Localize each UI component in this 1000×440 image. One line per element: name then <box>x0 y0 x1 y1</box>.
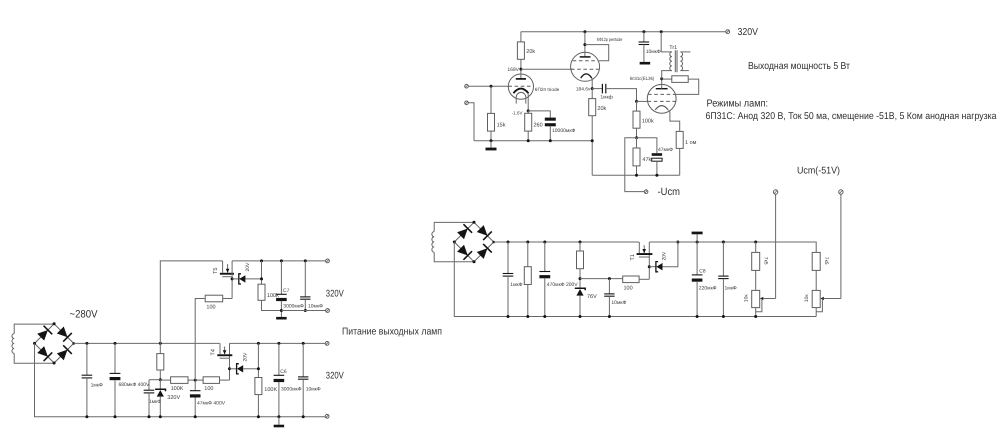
label 76V <box>587 294 597 300</box>
label C8 <box>699 269 706 275</box>
svg-text:320V: 320V <box>167 395 180 401</box>
resistor 100 T1gate <box>623 276 639 283</box>
label 1uF-a <box>91 383 103 389</box>
svg-text:-Ucm: -Ucm <box>658 186 681 198</box>
wire Tr1 secondary top <box>680 51 690 53</box>
label zener 320V <box>167 395 180 401</box>
wire bias bottom rail <box>508 316 816 318</box>
label C8 value <box>699 285 717 291</box>
svg-text:20V: 20V <box>245 262 251 272</box>
resistor bias series <box>577 251 584 269</box>
wire 10uF-d bottom <box>304 299 306 310</box>
node V2 anode-screen tie <box>583 43 586 46</box>
tube V2 cathode <box>581 74 592 78</box>
wire input 1 to grid <box>468 85 508 87</box>
label 10uF-d <box>308 303 323 309</box>
resistor 20k load <box>589 99 596 116</box>
label output power <box>748 61 850 72</box>
wire 15k top <box>490 86 492 113</box>
node grid junction <box>490 85 493 88</box>
node bias-C8 <box>696 241 699 244</box>
svg-text:10мкФ: 10мкФ <box>611 300 626 306</box>
svg-text:320V: 320V <box>326 289 344 300</box>
wire grid V3 <box>637 100 648 102</box>
wire 7k5a bottom <box>755 270 757 290</box>
wire V2 cathode lead <box>591 78 593 89</box>
transformer PSU2 winding <box>432 232 434 253</box>
capacitor C7 3000uF <box>276 294 287 301</box>
svg-text:Т4: Т4 <box>211 349 217 355</box>
label 100k T5 <box>267 293 279 299</box>
wire V2 screen tie <box>585 45 609 61</box>
wire 10uF bottom <box>643 45 645 62</box>
wire 47uF-psu1 top <box>194 380 196 391</box>
svg-text:47k: 47k <box>642 157 651 163</box>
wire 1uF-a bottom <box>86 378 88 417</box>
svg-text:6Ф12р pentode: 6Ф12р pentode <box>597 37 623 42</box>
node 10uF-c minus <box>302 415 305 418</box>
wire 100 T5 right <box>223 298 232 300</box>
node B1 top <box>53 322 56 325</box>
potentiometer 10k b <box>812 290 820 307</box>
wire T4 out rail <box>230 342 326 344</box>
wire bias res2 top <box>579 242 581 251</box>
resistor 100k grid <box>633 111 640 128</box>
wire zener76 bottom <box>579 296 581 317</box>
tube V2 anode <box>580 56 591 58</box>
wire bias res1 bottom <box>527 285 529 317</box>
wire bias res1 top <box>527 242 529 267</box>
node C8 minus <box>696 315 699 318</box>
wire T1 gate riser <box>648 242 650 279</box>
wire 100K vert T4 <box>257 343 259 377</box>
wire PSU1 winding top <box>14 324 54 334</box>
capacitor 10000uF <box>545 118 556 127</box>
wire C6 ground stub <box>278 417 280 425</box>
label V1 6P2p triode <box>535 87 560 92</box>
wire coupling to grid <box>606 89 637 102</box>
wire 320V rail <box>521 31 726 33</box>
node 10uF-e minus <box>608 315 611 318</box>
svg-text:~280V: ~280V <box>70 309 99 321</box>
wiper arrow b <box>820 297 841 300</box>
resistor 47k <box>633 148 640 166</box>
svg-text:-1.6V: -1.6V <box>512 110 523 115</box>
wire 10uF-d top <box>304 261 306 297</box>
tube V1 anode <box>516 78 526 80</box>
terminal Ucm a <box>773 190 777 194</box>
label C6 value <box>281 386 302 392</box>
node T5 zener junction <box>231 277 234 280</box>
node C6 minus <box>277 415 280 418</box>
node 1uF-b minus <box>148 415 151 418</box>
wire C8 bottom <box>696 282 698 317</box>
wire 10uF-e bottom <box>608 296 610 316</box>
svg-text:100: 100 <box>624 285 633 291</box>
svg-text:100: 100 <box>204 386 213 392</box>
node bias-1uF <box>507 241 510 244</box>
node out3-C6 <box>277 342 280 345</box>
zener 76V <box>575 288 585 295</box>
resistor 100k T5 <box>258 284 265 300</box>
diode B2 bottom-right <box>477 244 492 259</box>
terminal input 1 <box>465 84 469 88</box>
label V2 6F12p pentode <box>597 37 623 42</box>
node 15k-ground <box>490 139 493 142</box>
wire 1 ohm bottom <box>679 148 681 175</box>
wire cathode to cap <box>528 111 550 118</box>
resistor 1 ohm <box>676 131 683 148</box>
svg-text:6П2п triode: 6П2п triode <box>535 87 560 92</box>
node 470uF minus <box>543 315 546 318</box>
diode B1 bottom-left <box>37 346 52 361</box>
ground C7 <box>276 317 287 320</box>
svg-text:Tr1: Tr1 <box>669 45 677 51</box>
capacitor 680uF 400V <box>110 373 121 380</box>
wire pot b to rail <box>815 312 817 317</box>
capacitor 10uF anode <box>639 42 650 45</box>
wire 100k T5 bottom <box>262 300 282 310</box>
node B2 left <box>453 241 456 244</box>
label 260 <box>534 122 543 128</box>
node zener320 minus <box>159 415 162 418</box>
wire PSU1 plus rail <box>74 342 220 344</box>
node 47uF-psu1 minus <box>194 415 197 418</box>
terminal 320V out2 <box>326 309 330 313</box>
svg-text:100: 100 <box>206 304 215 310</box>
label 320V ch2 <box>326 370 344 381</box>
svg-text:C6: C6 <box>280 369 287 375</box>
node V3 anode <box>660 77 663 80</box>
capacitor 10uF-d <box>300 297 310 299</box>
label 470uF <box>547 282 579 288</box>
wire wiper a up <box>775 194 777 299</box>
svg-text:C7: C7 <box>283 288 290 294</box>
ground stage1 <box>486 148 497 151</box>
node 10uF-e junction <box>608 277 611 280</box>
wire 10uF-c bottom <box>302 379 304 417</box>
svg-text:3000мкФ: 3000мкФ <box>283 303 304 309</box>
label 169V <box>507 67 519 73</box>
svg-text:47мкФ 400V: 47мкФ 400V <box>197 401 226 407</box>
label Tr1 <box>669 45 677 51</box>
diode B2 top-right <box>477 225 492 240</box>
label 47uF 400V <box>197 401 226 407</box>
wire 1uF-e top <box>507 242 509 274</box>
resistor series PSU1 <box>157 354 164 370</box>
wire cap bottom <box>549 126 551 141</box>
svg-text:10000мкФ: 10000мкФ <box>552 128 576 134</box>
capacitor 10uF-e <box>604 294 614 296</box>
label C6 <box>280 369 287 375</box>
wire 10uF top <box>643 32 645 42</box>
transistor T1 <box>637 242 653 257</box>
node bias-7k5a <box>754 241 757 244</box>
svg-text:Т1: Т1 <box>630 254 636 260</box>
wire V3 cathode lead <box>669 110 680 131</box>
node out1-10uF <box>304 259 307 262</box>
capacitor 1uF-b <box>144 390 155 393</box>
wiper arrow a <box>760 297 776 300</box>
wire stage1 ground rail <box>474 140 592 142</box>
node 680uF minus <box>114 415 117 418</box>
wire T5 feed up <box>160 261 222 344</box>
node zener T1 rail <box>676 241 679 244</box>
wire 10uF-e top <box>608 279 610 294</box>
capacitor 47uF <box>652 153 662 161</box>
node zener76 minus <box>579 315 582 318</box>
label 20V T4 <box>243 352 249 362</box>
node bias node <box>635 136 638 139</box>
node rail-Tr1 <box>660 30 663 33</box>
wire zener320 bottom <box>159 397 161 417</box>
label T1 <box>630 254 636 260</box>
transformer PSU1 winding <box>12 334 14 354</box>
ground 10uF <box>640 62 651 65</box>
svg-text:260: 260 <box>534 122 543 128</box>
label 20V T1 <box>662 251 668 261</box>
bridge B1 frame <box>35 324 74 363</box>
wire zener T4 to 100K <box>243 368 258 370</box>
wire riser T5-gate <box>195 299 205 381</box>
node pot a minus <box>754 315 757 318</box>
svg-text:20V: 20V <box>662 251 668 261</box>
tube V1 grid <box>508 85 533 87</box>
svg-text:100K: 100K <box>171 386 184 392</box>
resistor 100 T5gate <box>205 295 223 302</box>
transformer Tr1 secondary <box>680 52 682 71</box>
wire divider left <box>149 379 160 381</box>
label 100k grid <box>642 119 654 125</box>
svg-text:3000мкФ: 3000мкФ <box>281 386 302 392</box>
label tube modes 2 <box>706 111 997 122</box>
wire C6 bottom <box>278 382 280 417</box>
wire 470uF top <box>544 242 546 272</box>
wire -Ucm rail <box>592 174 680 176</box>
wire 100k vert T5 <box>261 261 263 284</box>
capacitor 47uF 400V psu1 <box>190 391 201 398</box>
node 47k-rail <box>635 174 638 177</box>
svg-text:10мкФ: 10мкФ <box>308 303 323 309</box>
node bias-res1 <box>526 241 529 244</box>
zener 20V T1 <box>649 262 662 272</box>
capacitor 1uF-a <box>82 375 93 378</box>
svg-text:100K: 100K <box>264 387 277 393</box>
wire zener T1 right <box>663 242 678 267</box>
resistor 100K T4 <box>255 378 262 395</box>
zener 20V T5 <box>232 274 245 284</box>
node out1-100k <box>260 259 263 262</box>
svg-text:320V: 320V <box>738 27 759 38</box>
wire 47uF-psu1 bottom <box>194 398 196 417</box>
terminal Ucm b <box>839 190 843 194</box>
node B1 left <box>33 342 36 345</box>
wire cathode to coupling cap <box>592 88 602 90</box>
wire C8 top <box>696 242 698 275</box>
label 10uF-e <box>611 300 626 306</box>
node T4 zener junction <box>228 367 231 370</box>
wire 76V to 100 <box>580 278 623 280</box>
label 10k b <box>804 294 810 303</box>
label V3 6p31s <box>630 76 655 81</box>
ground C8 <box>692 232 703 235</box>
wire 10uF-c top <box>302 343 304 377</box>
label 1 ohm <box>685 140 697 146</box>
wire 20k anode bottom <box>520 59 522 79</box>
capacitor C6 3000uF <box>274 375 285 382</box>
wire C8 ground stub <box>696 234 698 242</box>
node V3 grid junction <box>635 100 638 103</box>
bridge B2 frame <box>454 222 493 261</box>
tube V3 control grid <box>648 100 676 102</box>
tube V2 control grid <box>571 68 599 70</box>
label ~280V <box>70 309 99 321</box>
svg-text:10к: 10к <box>744 294 750 303</box>
wire T5 out rail <box>232 260 326 262</box>
label T5 <box>213 268 219 274</box>
svg-text:169V: 169V <box>507 67 519 73</box>
label 47uF <box>658 147 673 153</box>
svg-text:C8: C8 <box>699 269 706 275</box>
capacitor C8 220uF <box>692 275 703 282</box>
svg-text:7к5: 7к5 <box>823 257 829 265</box>
transformer Tr1 core <box>675 50 677 72</box>
label -1.6V <box>512 110 523 115</box>
svg-text:320V: 320V <box>326 370 344 381</box>
label 15k <box>497 122 506 128</box>
svg-text:6П31С: Анод 320 В, Ток 50 ма,: 6П31С: Анод 320 В, Ток 50 ма, смещение -… <box>706 111 997 122</box>
tube V3 screen grid <box>648 93 675 95</box>
svg-text:10к: 10к <box>804 294 810 303</box>
label 20V T5 <box>245 262 251 272</box>
svg-text:1мкФ: 1мкФ <box>510 282 522 288</box>
label 7k5 a <box>762 257 768 265</box>
label 320V rail <box>738 27 759 38</box>
zener 20V T4 <box>230 364 244 374</box>
wire V1 cathode lead <box>527 93 529 111</box>
label C7 <box>283 288 290 294</box>
svg-text:Питание выходных ламп: Питание выходных ламп <box>342 326 442 337</box>
wire T5 lower rail <box>281 310 325 312</box>
label 10uF anode <box>646 49 661 55</box>
wire series res top <box>159 343 161 353</box>
svg-text:Т5: Т5 <box>213 268 219 274</box>
node bias res1 minus <box>526 315 529 318</box>
svg-text:Выходная мощность 5 Вт: Выходная мощность 5 Вт <box>748 61 850 72</box>
node out3-100K <box>257 342 260 345</box>
wire C6 top <box>278 343 280 375</box>
node 184.6v <box>591 87 594 90</box>
node rail-V2 anode <box>583 30 586 33</box>
label 1uF-b <box>149 399 161 405</box>
wire PSU2 winding bottom <box>434 252 474 262</box>
wire 7k5a top <box>755 242 757 252</box>
wire 7k5b top <box>815 242 817 252</box>
wire 20k load bottom <box>591 116 593 176</box>
node B2 bottom <box>473 260 476 263</box>
wire 100k top <box>636 101 638 111</box>
wire 47k bottom <box>636 166 638 175</box>
wire 1uF-b top <box>148 380 150 391</box>
wire V3 anode lead <box>661 79 663 89</box>
wire C7 top <box>280 261 282 294</box>
svg-text:6п31с(EL36): 6п31с(EL36) <box>630 76 655 81</box>
wire PSU1 minus rail <box>87 416 327 418</box>
node B2 right <box>492 241 495 244</box>
resistor 15k <box>488 113 495 131</box>
svg-text:20V: 20V <box>243 352 249 362</box>
wire pot a bottom link <box>756 299 762 312</box>
resistor 7k5 b <box>812 252 820 270</box>
wire 7k5b bottom <box>815 270 817 290</box>
node B2 top <box>473 221 476 224</box>
svg-text:184.6v: 184.6v <box>576 87 591 93</box>
diode B1 top-left <box>37 326 52 341</box>
wire zener320 top <box>159 380 161 390</box>
node B1 bottom <box>53 362 56 365</box>
wire T5 gate riser <box>231 261 233 299</box>
svg-text:10мкФ: 10мкФ <box>306 386 321 392</box>
tube V1 heater <box>516 92 526 97</box>
label 7k5 b <box>823 257 829 265</box>
wire bias rail 2 <box>649 241 816 243</box>
wire PSU2 winding top <box>434 222 474 231</box>
diode B1 bottom-right <box>57 345 72 360</box>
wire pot a to rail <box>755 312 757 317</box>
svg-text:1мкФ: 1мкФ <box>725 285 737 291</box>
label -Ucm <box>658 186 681 198</box>
wire 100K left <box>160 379 170 381</box>
wire anode to pentode grid <box>521 68 573 70</box>
svg-text:1мкФ: 1мкФ <box>91 383 103 389</box>
transistor T4 <box>217 343 232 358</box>
svg-text:1мкФ: 1мкФ <box>149 399 161 405</box>
node B1 right <box>72 342 75 345</box>
node plus-680uF <box>114 342 117 345</box>
label 1uF-f <box>725 285 737 291</box>
wire B1 minus <box>35 343 87 416</box>
node bias-470uF <box>543 241 546 244</box>
wire 15k bottom <box>490 131 492 141</box>
tube V1 cathode <box>513 89 528 94</box>
tube V3 anode <box>656 88 668 90</box>
wire Tr1 secondary bottom <box>680 70 688 72</box>
node 100K T4 minus <box>257 415 260 418</box>
label 100K T4 <box>264 387 277 393</box>
svg-text:680мкФ 400V: 680мкФ 400V <box>119 382 151 388</box>
potentiometer 10k a <box>752 290 760 307</box>
wire ground stub <box>490 141 492 148</box>
svg-text:100k: 100k <box>642 119 654 125</box>
node 169V <box>519 68 522 71</box>
wire 100K T4 bottom <box>257 395 259 417</box>
capacitor 470uF 200V <box>539 272 550 279</box>
label 100K psu1 <box>171 386 184 392</box>
label 20k load <box>597 106 606 112</box>
capacitor 1uF-f <box>718 276 728 279</box>
wire 47uF bottom <box>656 161 658 175</box>
label 184.6v <box>576 87 591 93</box>
capacitor 1uF coupling <box>602 84 605 94</box>
wire screen stopper right <box>675 79 698 94</box>
wire 20k anode top <box>520 32 522 42</box>
node 260-ground <box>527 139 530 142</box>
terminal 320V out3 <box>325 342 329 346</box>
label 10000uF <box>552 128 576 134</box>
label 100 T4gate <box>204 386 213 392</box>
node 1uF-f minus <box>722 315 725 318</box>
resistor 100 T4gate <box>203 377 219 384</box>
